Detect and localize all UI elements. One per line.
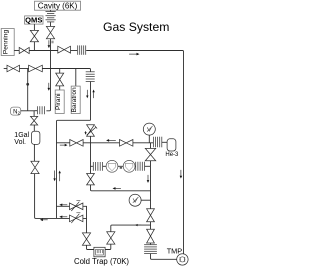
arrow left (y205.8 line) [59, 204, 67, 207]
bellows pump right [136, 162, 145, 171]
valve pirani stub [59, 69, 61, 74]
svg-text:QMS: QMS [25, 16, 42, 25]
wire valve to cylinder [33, 125, 35, 131]
svg-text:Penning: Penning [3, 30, 10, 55]
wire mid line to junction x90 [83, 142, 119, 144]
valve QMS (vertical hourglass) [30, 30, 38, 41]
valve tmp2 (vertical hourglass) [147, 229, 155, 243]
wire N2 feed [21, 110, 34, 112]
arrow down (right edge line) [180, 170, 183, 179]
valve pump line (vertical hourglass) [87, 174, 95, 185]
crossed valve CV2 (horizontal bowtie with stem) [70, 213, 83, 224]
wire 1gal branch down and corner right along y217.9 [35, 174, 70, 219]
wire row2 to corner and bellows x90 [42, 69, 90, 72]
valve row2 left (horizontal bowtie) [7, 65, 20, 72]
valve penning (horizontal bowtie) [19, 47, 29, 53]
arrow down (x56.5 line) [53, 171, 55, 182]
gray mark up (cavity line) [51, 41, 53, 44]
wire tmp1 to tee [150, 222, 152, 229]
label box N2 [11, 107, 21, 115]
pump P2 circle with pentagon [123, 160, 135, 172]
He-3 cylinder [167, 139, 176, 151]
valve mid left (horizontal bowtie) [70, 140, 83, 147]
arrow down (x90 line) [86, 90, 88, 99]
wire trunk row1 to row2 [50, 51, 52, 69]
wire N2 riser to row2 [27, 69, 29, 111]
svg-text:Pirani: Pirani [55, 93, 62, 110]
svg-text:Gas System: Gas System [103, 20, 169, 34]
gauge G1 circle with needle [143, 123, 155, 135]
wire right trunk down [150, 166, 152, 209]
wire row2 left stub [4, 68, 7, 70]
label box Penning [1, 29, 14, 56]
wire pump row stub from x90 [91, 165, 93, 167]
wire x90 down to tee y119.8 [90, 82, 92, 121]
wire G2 stub [141, 199, 150, 201]
bellows x90 (vertical pipe) [86, 72, 95, 82]
wire QMS valve to row1 [33, 42, 35, 51]
arrow down (cavity line) [48, 40, 51, 48]
wire cylinder down [33, 144, 35, 161]
wire tee x56.5 vertical [57, 120, 91, 218]
thermal hatch under cavity [46, 12, 56, 22]
wire baratron stub [75, 69, 77, 87]
valve tmp1 (vertical hourglass) [147, 209, 155, 222]
wire bellows to he3 cylinder [162, 141, 167, 143]
pump P1 circle with pentagon [106, 160, 118, 172]
wire valve to row1 [50, 39, 52, 51]
wire bellows corner to TMP pump [151, 254, 177, 260]
TMP pump circle [177, 254, 188, 265]
wire X1 to mid line [90, 136, 92, 143]
arrow down (right trunk) [147, 175, 150, 183]
label box QMS [25, 16, 43, 25]
bellows pump left [93, 162, 102, 171]
arrow down (trunk below row2) [48, 83, 51, 91]
svg-text:Cold Trap (70K): Cold Trap (70K) [74, 257, 129, 266]
wire he3 junction down through valve [150, 143, 152, 167]
wire pirani valve to box [59, 86, 61, 90]
valve trap right (vertical hourglass) [107, 232, 115, 244]
label box Pirani [55, 90, 64, 114]
gauge G2 circle with needle [129, 194, 141, 206]
arrow left (y190.3 line) [113, 187, 121, 190]
wire hatch to valve [50, 22, 52, 26]
wire bellows to 1gal junction [34, 110, 37, 112]
arrow small down (left of X1) [85, 132, 87, 135]
wire cavity stub [50, 10, 52, 11]
valve X1 with stem (vertical hourglass) [87, 125, 98, 137]
wire mid line y142.3 [57, 142, 70, 144]
wire row2 between valves [20, 68, 29, 70]
valve row2 right (horizontal bowtie) [29, 65, 43, 72]
arrow left (mid line right) [106, 139, 116, 142]
valve trap left (vertical hourglass) [82, 233, 90, 245]
bellows he3 [153, 137, 161, 148]
wire row1 long to right edge and down to TMP [86, 51, 183, 255]
wire CV1 line [57, 206, 87, 218]
label box Cavity (6K) [35, 1, 81, 10]
svg-text:N2: N2 [13, 109, 20, 115]
bellows tmp [144, 245, 157, 254]
svg-text:Vol.: Vol. [14, 139, 26, 146]
wire QMS stub [33, 24, 35, 30]
wire x90 down through pump valve to corner y190.3 [91, 143, 151, 191]
arrow up (x90 line) [92, 90, 94, 99]
crossed valve CV1 (horizontal bowtie with stem) [70, 201, 83, 212]
1 gal volume cylinder [32, 131, 40, 144]
valve 1gal top (vertical hourglass) [31, 116, 38, 125]
node junction dot on N2 riser [26, 83, 29, 86]
cold trap box [94, 247, 105, 256]
valve cavity (vertical hourglass) [46, 26, 54, 38]
wire row1 to bellows [71, 50, 78, 52]
wire pump2 to bellows [134, 165, 136, 167]
valve pirani (vertical hourglass) [56, 73, 64, 86]
valve row1 (horizontal bowtie) [58, 46, 71, 53]
valve mid right (horizontal bowtie) [120, 140, 133, 147]
wire G1 stub [148, 135, 150, 143]
svg-text:He-3: He-3 [165, 152, 179, 158]
label box Baratron [71, 86, 80, 114]
wire tee y224.6 to trap right valve [111, 225, 151, 232]
arrow up (x56.5 line) [59, 171, 61, 182]
wire trap left valve to trap box [87, 245, 94, 249]
wire mid line to he3 junction [133, 142, 154, 144]
wire CV2 right corner down to trap valve [83, 218, 86, 233]
wire tmp2 to bellows [150, 243, 152, 244]
wire penning to valve [14, 50, 19, 52]
valve he3 down (vertical hourglass) [145, 148, 155, 160]
svg-text:Baratron: Baratron [71, 87, 78, 112]
bellows N2 line [38, 106, 45, 114]
valve 1gal bottom (vertical hourglass) [31, 161, 39, 173]
bellows row1 [78, 45, 86, 54]
arrow left (y217.9 line left) [40, 219, 48, 222]
wire trap right valve to trap box [105, 244, 111, 249]
wire row1 [29, 50, 58, 52]
arrow left (y217.9 line mid) [59, 216, 67, 219]
wire pump link [118, 165, 123, 167]
arrow right (mid line left) [60, 144, 68, 147]
wire bellows to pump1 [103, 165, 106, 167]
wire bellows to trunk [145, 165, 151, 167]
arrow right (row1 near corner) [129, 53, 139, 56]
svg-text:Cavity (6K): Cavity (6K) [38, 1, 78, 10]
wire junction to valve [33, 111, 35, 117]
arrow left (y224.6 line) [135, 224, 142, 226]
wire trunk row2 down, corner to N2 bellows [46, 69, 50, 111]
node link mark [120, 167, 122, 168]
svg-text:TMP: TMP [167, 247, 183, 256]
